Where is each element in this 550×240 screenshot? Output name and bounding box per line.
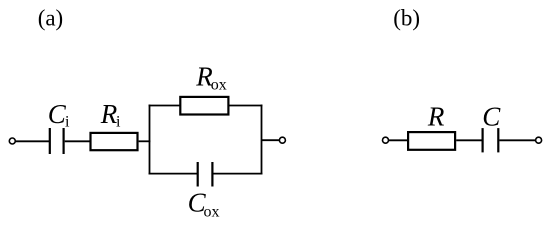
svg-text:ox: ox (211, 77, 227, 94)
wire T1 to C_i (16, 140, 49, 142)
terminal T2 (right, circuit a) (279, 137, 285, 143)
terminal T1 (left, circuit a) (9, 138, 15, 144)
resistor R_ox (180, 97, 228, 115)
wire top branch right (229, 105, 262, 107)
wire C to T4 (499, 139, 535, 141)
capacitor C (483, 128, 499, 152)
wire C_i to R_i (65, 140, 90, 142)
capacitor C_ox (198, 162, 213, 187)
svg-text:i: i (65, 114, 70, 131)
label C_i (48, 99, 70, 131)
resistor R (408, 132, 455, 150)
svg-text:(b): (b) (393, 6, 420, 31)
svg-text:C: C (482, 101, 501, 131)
wire top branch left (149, 105, 180, 107)
svg-text:(a): (a) (38, 6, 64, 31)
wire R to C (456, 139, 482, 141)
wire bottom branch left (149, 173, 197, 175)
terminal T3 (left, circuit b) (383, 137, 389, 143)
label C_ox (188, 188, 220, 221)
terminal T4 (right, circuit b) (536, 137, 542, 143)
capacitor C_i (50, 128, 64, 154)
svg-text:R: R (427, 101, 445, 131)
label R_i (100, 99, 121, 131)
wire node B to T2 (262, 139, 280, 141)
node A left vertical wire (149, 105, 151, 175)
svg-text:i: i (116, 114, 121, 131)
label R_ox (195, 62, 227, 94)
svg-text:C: C (48, 99, 67, 129)
resistor R_i (91, 133, 138, 150)
wire bottom branch right (214, 173, 263, 175)
wire T3 to R (389, 139, 408, 141)
node B right vertical wire (261, 105, 263, 175)
svg-text:ox: ox (204, 204, 220, 221)
wire R_i to node A (139, 140, 151, 142)
